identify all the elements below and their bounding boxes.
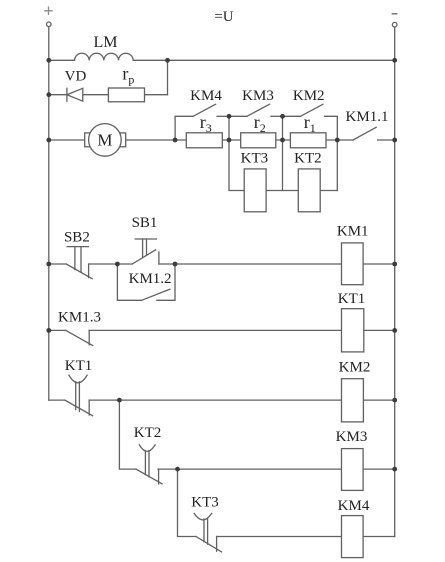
svg-text:KT3: KT3 [241, 151, 269, 167]
svg-text:KM3: KM3 [336, 429, 368, 445]
svg-text:=U: =U [214, 9, 233, 25]
svg-text:KM4: KM4 [338, 498, 370, 514]
svg-text:KT2: KT2 [294, 151, 322, 167]
svg-text:KT3: KT3 [191, 494, 219, 510]
svg-text:KM1.3: KM1.3 [58, 310, 101, 326]
svg-text:KM3: KM3 [242, 88, 274, 104]
svg-text:KT1: KT1 [65, 358, 93, 374]
svg-text:KM2: KM2 [339, 359, 371, 375]
svg-text:KM2: KM2 [293, 88, 325, 104]
svg-text:VD: VD [65, 69, 87, 85]
svg-text:KM1.2: KM1.2 [129, 271, 172, 287]
svg-text:KM1: KM1 [337, 224, 369, 240]
svg-text:KM4: KM4 [190, 88, 222, 104]
svg-text:KT2: KT2 [134, 425, 162, 441]
svg-text:SB1: SB1 [132, 215, 158, 231]
svg-text:LM: LM [94, 34, 118, 51]
svg-text:SB2: SB2 [64, 229, 90, 245]
svg-text:KT1: KT1 [338, 291, 366, 307]
svg-text:M: M [97, 131, 112, 150]
svg-text:KM1.1: KM1.1 [346, 109, 389, 125]
